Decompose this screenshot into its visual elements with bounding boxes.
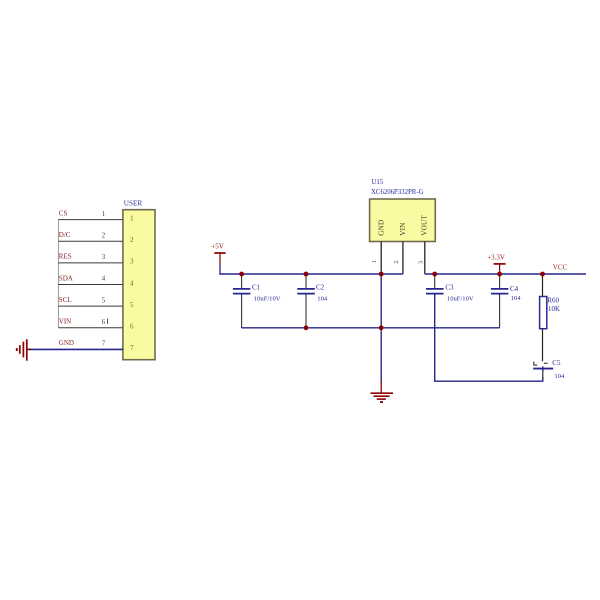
wire CS pin1 — [58, 219, 123, 221]
wire +5V rail — [219, 273, 403, 275]
junction dot R60 top — [540, 272, 545, 277]
regulator U15 body — [370, 199, 436, 242]
svg-text:VIN: VIN — [59, 318, 71, 326]
svg-text:GND: GND — [377, 220, 385, 236]
junction dot GND rail cross — [379, 325, 384, 330]
wire RES pin3 — [58, 262, 123, 264]
svg-text:C4: C4 — [510, 285, 519, 293]
svg-text:104: 104 — [511, 295, 522, 302]
power +3.3V symbol — [494, 263, 506, 265]
wire VIN pin6 — [58, 327, 123, 329]
pin 1 lead (GND) — [380, 242, 382, 275]
svg-text:10uF/10V: 10uF/10V — [447, 295, 474, 302]
junction dot C2 top — [304, 272, 309, 277]
pin 2 lead (VIN) — [402, 242, 404, 275]
wire D/C pin2 — [58, 240, 123, 242]
resistor R60 — [542, 274, 544, 297]
svg-text:5: 5 — [130, 302, 134, 309]
junction dot GND pin rail — [379, 272, 384, 277]
svg-text:10K: 10K — [548, 305, 560, 313]
svg-text:C2: C2 — [316, 284, 325, 292]
svg-text:7: 7 — [102, 341, 106, 348]
capacitor C3 — [434, 274, 436, 288]
wire SDA pin4 — [58, 284, 123, 286]
svg-text:2: 2 — [102, 232, 106, 239]
svg-text:4: 4 — [130, 280, 134, 287]
power +5V symbol — [214, 252, 225, 254]
svg-text:104: 104 — [554, 373, 565, 380]
svg-text:CS: CS — [59, 209, 68, 217]
wire +5V stem — [219, 264, 221, 275]
svg-text:SCL: SCL — [59, 296, 72, 304]
svg-text:VOUT: VOUT — [420, 215, 428, 236]
capacitor C2 — [305, 274, 307, 288]
svg-text:+5V: +5V — [211, 242, 224, 250]
svg-text:10uF/10V: 10uF/10V — [254, 295, 281, 302]
wire SCL pin5 — [58, 305, 123, 307]
svg-text:C3: C3 — [445, 284, 454, 292]
wire GND pin down — [380, 274, 382, 383]
ground symbol bottom — [371, 382, 394, 403]
ground symbol left — [17, 339, 31, 360]
svg-text:D/C: D/C — [59, 231, 71, 239]
svg-text:2: 2 — [130, 237, 134, 244]
svg-text:C5: C5 — [552, 359, 561, 367]
svg-text:7: 7 — [130, 345, 134, 352]
svg-text:2: 2 — [393, 261, 400, 264]
svg-text:VIN: VIN — [399, 222, 407, 236]
capacitor C5 — [534, 362, 537, 366]
svg-text:104: 104 — [317, 295, 328, 302]
svg-text:1: 1 — [130, 215, 133, 222]
svg-text:XC6206P332PR-G: XC6206P332PR-G — [371, 189, 424, 196]
svg-text:+3.3V: +3.3V — [487, 254, 505, 262]
svg-text:VCC: VCC — [553, 263, 568, 271]
wire VOUT rail — [425, 273, 586, 275]
connector J USER sheet box — [123, 210, 155, 360]
junction dot +3.3V C4 — [497, 272, 502, 277]
svg-text:C1: C1 — [252, 284, 261, 292]
svg-text:U15: U15 — [371, 179, 383, 186]
pin 3 lead (VOUT) — [424, 242, 426, 275]
wire GND pin7 — [28, 348, 123, 350]
pin 6 tick mark — [107, 319, 109, 324]
svg-text:1: 1 — [102, 211, 105, 218]
svg-text:3: 3 — [130, 259, 134, 266]
svg-text:SDA: SDA — [59, 274, 73, 282]
svg-text:R60: R60 — [547, 296, 559, 304]
junction dot C1 top — [239, 272, 244, 277]
svg-text:3: 3 — [102, 254, 106, 261]
svg-text:1: 1 — [371, 260, 378, 263]
capacitor C4 — [499, 274, 501, 288]
svg-text:6: 6 — [102, 319, 106, 326]
svg-text:6: 6 — [130, 324, 134, 331]
svg-text:3: 3 — [418, 261, 425, 264]
svg-text:RES: RES — [59, 253, 72, 261]
junction dot C2 bottom — [304, 325, 309, 330]
svg-text:4: 4 — [102, 276, 106, 283]
capacitor C1 — [241, 274, 243, 288]
wire ground rail — [242, 327, 500, 329]
svg-text:USER: USER — [124, 199, 143, 207]
wire C3 bottom to C5 bottom — [435, 294, 543, 381]
junction dot C3 top — [432, 272, 437, 277]
svg-text:GND: GND — [59, 339, 74, 347]
svg-text:5: 5 — [102, 297, 106, 304]
wire bus vertical line — [57, 220, 59, 328]
